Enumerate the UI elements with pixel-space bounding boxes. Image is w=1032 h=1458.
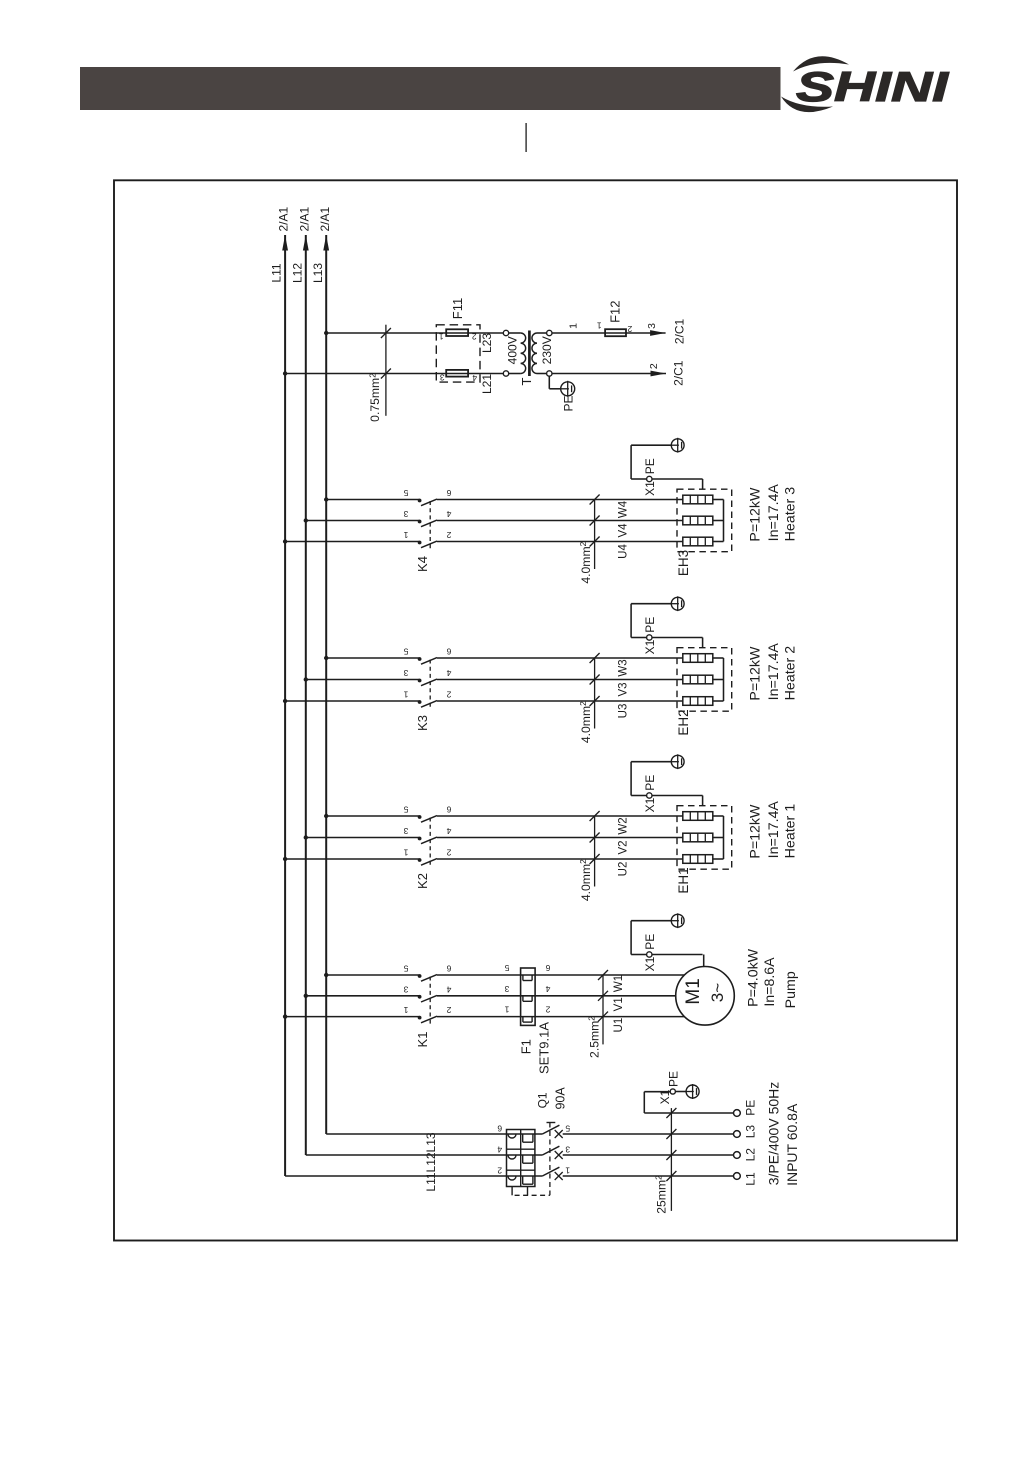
svg-text:K3: K3: [415, 715, 430, 731]
svg-text:4: 4: [446, 668, 451, 678]
svg-text:PE: PE: [643, 458, 657, 474]
svg-text:2/A1: 2/A1: [318, 207, 332, 232]
svg-text:2: 2: [446, 848, 451, 858]
svg-text:P=12kW: P=12kW: [748, 804, 764, 859]
svg-text:L21: L21: [480, 374, 494, 394]
svg-text:2: 2: [446, 530, 451, 540]
svg-text:5: 5: [403, 647, 408, 657]
svg-text:2: 2: [472, 331, 477, 341]
svg-text:1: 1: [504, 1005, 509, 1015]
svg-text:Heater 1: Heater 1: [783, 804, 799, 859]
svg-text:6: 6: [545, 963, 550, 973]
svg-text:5: 5: [403, 488, 408, 498]
svg-text:4: 4: [545, 984, 550, 994]
svg-text:K1: K1: [415, 1032, 430, 1048]
svg-text:3: 3: [504, 984, 509, 994]
svg-text:2: 2: [446, 1005, 451, 1015]
svg-text:PE: PE: [561, 395, 575, 411]
svg-text:U4: U4: [618, 544, 630, 559]
svg-text:X1: X1: [643, 481, 657, 496]
svg-text:6: 6: [446, 488, 451, 498]
svg-text:L1: L1: [743, 1172, 757, 1186]
svg-text:W3: W3: [618, 659, 630, 676]
svg-text:6: 6: [446, 647, 451, 657]
svg-text:F11: F11: [450, 298, 465, 319]
svg-text:P=4.0kW: P=4.0kW: [746, 948, 762, 1007]
svg-text:25mm2: 25mm2: [653, 1175, 668, 1214]
svg-text:3/PE/400V 50Hz: 3/PE/400V 50Hz: [766, 1082, 782, 1186]
svg-text:K4: K4: [415, 556, 430, 572]
svg-text:6: 6: [446, 964, 451, 974]
svg-text:4.0mm2: 4.0mm2: [578, 701, 593, 743]
svg-text:SHINI: SHINI: [796, 63, 950, 110]
svg-text:EH3: EH3: [676, 550, 691, 576]
svg-text:6: 6: [497, 1124, 502, 1134]
svg-text:2: 2: [648, 363, 660, 369]
svg-text:2/C1: 2/C1: [672, 360, 686, 386]
svg-text:Heater 2: Heater 2: [783, 646, 799, 701]
svg-text:6: 6: [446, 805, 451, 815]
svg-text:3: 3: [403, 826, 408, 836]
svg-text:W1: W1: [613, 975, 625, 992]
svg-text:2/A1: 2/A1: [277, 207, 291, 232]
svg-text:PE: PE: [643, 617, 657, 633]
svg-text:1: 1: [597, 321, 602, 331]
svg-text:2.5mm2: 2.5mm2: [587, 1016, 602, 1058]
svg-text:L13: L13: [311, 263, 325, 283]
svg-text:4: 4: [446, 826, 451, 836]
svg-text:5: 5: [504, 963, 509, 973]
svg-text:P=12kW: P=12kW: [748, 646, 764, 701]
svg-text:3: 3: [403, 668, 408, 678]
svg-text:In=17.4A: In=17.4A: [766, 484, 782, 542]
svg-text:PE: PE: [643, 775, 657, 791]
svg-text:F1: F1: [518, 1039, 533, 1054]
svg-text:1: 1: [568, 323, 580, 329]
svg-text:1: 1: [403, 848, 408, 858]
svg-text:3~: 3~: [708, 983, 727, 1002]
svg-text:X1: X1: [643, 956, 657, 971]
svg-text:3: 3: [403, 984, 408, 994]
svg-text:5: 5: [403, 805, 408, 815]
svg-text:4: 4: [497, 1145, 502, 1155]
svg-text:400V: 400V: [506, 336, 520, 364]
svg-text:90A: 90A: [553, 1087, 567, 1110]
svg-text:L3: L3: [743, 1125, 757, 1139]
svg-text:PE: PE: [643, 934, 657, 950]
svg-text:2: 2: [497, 1166, 502, 1176]
svg-text:Heater 3: Heater 3: [783, 487, 799, 542]
svg-text:1: 1: [565, 1166, 570, 1176]
svg-text:4: 4: [446, 509, 451, 519]
svg-text:2/A1: 2/A1: [297, 207, 311, 232]
svg-text:K2: K2: [415, 873, 430, 889]
svg-text:Pump: Pump: [783, 971, 799, 1008]
svg-text:X1: X1: [658, 1089, 672, 1104]
svg-text:L11: L11: [270, 263, 284, 282]
svg-text:1: 1: [403, 690, 408, 700]
svg-text:PE: PE: [667, 1071, 681, 1087]
svg-text:2: 2: [446, 690, 451, 700]
svg-text:230V: 230V: [540, 336, 554, 364]
svg-text:V4: V4: [618, 523, 630, 538]
svg-text:U3: U3: [618, 704, 630, 719]
svg-text:1: 1: [403, 1005, 408, 1015]
svg-text:U2: U2: [618, 862, 630, 877]
svg-text:EH1: EH1: [676, 867, 691, 893]
svg-text:4.0mm2: 4.0mm2: [578, 859, 593, 901]
svg-text:W2: W2: [618, 817, 630, 834]
svg-text:4.0mm2: 4.0mm2: [578, 541, 593, 583]
svg-text:3: 3: [565, 1145, 570, 1155]
svg-text:Q1: Q1: [536, 1092, 550, 1108]
svg-text:V3: V3: [618, 682, 630, 696]
svg-text:V1: V1: [613, 997, 625, 1011]
svg-text:W4: W4: [618, 500, 630, 518]
svg-text:INPUT 60.8A: INPUT 60.8A: [784, 1103, 800, 1186]
svg-text:P=12kW: P=12kW: [748, 487, 764, 542]
svg-text:2/C1: 2/C1: [672, 319, 686, 345]
svg-text:T: T: [519, 377, 534, 385]
svg-text:U1: U1: [613, 1018, 625, 1033]
svg-text:L23: L23: [480, 333, 494, 353]
svg-text:SET9.1A: SET9.1A: [537, 1022, 552, 1074]
svg-text:1: 1: [439, 331, 444, 341]
svg-text:1: 1: [403, 530, 408, 540]
svg-text:L2: L2: [743, 1148, 757, 1162]
svg-text:3: 3: [646, 323, 658, 329]
svg-text:In=8.6A: In=8.6A: [762, 957, 778, 1007]
svg-text:X1: X1: [643, 797, 657, 812]
svg-text:L12: L12: [290, 263, 304, 283]
svg-text:EH2: EH2: [676, 709, 691, 735]
svg-text:X1: X1: [643, 639, 657, 654]
svg-text:4: 4: [472, 373, 477, 383]
svg-text:V2: V2: [618, 840, 630, 854]
svg-text:In=17.4A: In=17.4A: [766, 801, 782, 859]
svg-text:PE: PE: [743, 1100, 757, 1116]
svg-text:F12: F12: [608, 300, 623, 322]
svg-text:M1: M1: [683, 978, 704, 1004]
svg-text:4: 4: [446, 984, 451, 994]
svg-text:L11L12L13: L11L12L13: [424, 1132, 438, 1192]
svg-text:0.75mm2: 0.75mm2: [367, 373, 382, 422]
svg-text:3: 3: [440, 373, 445, 383]
svg-text:3: 3: [403, 509, 408, 519]
svg-text:In=17.4A: In=17.4A: [766, 643, 782, 701]
svg-text:5: 5: [403, 964, 408, 974]
svg-text:2: 2: [545, 1005, 550, 1015]
svg-text:2: 2: [627, 324, 632, 334]
svg-text:5: 5: [565, 1124, 570, 1134]
